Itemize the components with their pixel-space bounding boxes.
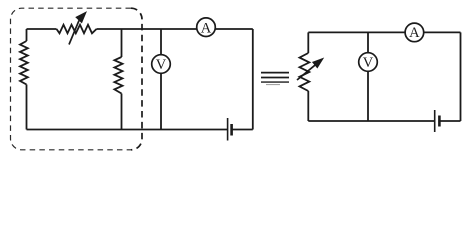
svg-text:V: V: [156, 57, 167, 73]
wire: right circuit bottom wire to battery B2: [308, 120, 434, 122]
dashed enclosure box right edge (bolder): [131, 8, 142, 150]
svg-text:A: A: [201, 21, 212, 37]
equivalence symbol (three bars): [261, 72, 289, 74]
wire: right circuit top wire from ammeter A2 to corner: [424, 31, 461, 33]
wire: voltmeter V1 branch bottom stub: [160, 73, 162, 129]
ammeter A2 circle: [405, 23, 424, 42]
wire: voltmeter V1 branch top stub: [160, 29, 162, 55]
wire: left wire top stub: [26, 29, 28, 41]
rheostat R1 arrowhead: [76, 12, 86, 22]
voltmeter V2 circle: [359, 53, 378, 72]
dashed enclosure box (equivalent network boundary): [11, 8, 132, 150]
battery B2 long plate: [434, 110, 436, 132]
resistor R2 (left vertical) zigzag: [20, 41, 28, 85]
wire: right circuit top wire to ammeter A2: [308, 31, 405, 33]
wire: middle branch bottom stub: [121, 94, 123, 130]
wire: bottom wire from battery B1 to right corner: [232, 129, 253, 131]
svg-text:A: A: [409, 25, 420, 41]
resistor R3 (middle vertical) zigzag: [114, 57, 122, 94]
voltmeter V1 circle: [152, 55, 171, 74]
rheostat R4 zigzag (right circuit, variable resistor): [300, 53, 310, 91]
wire: left wire bottom segment: [26, 85, 28, 130]
wire: right circuit right vertical wire: [460, 32, 462, 121]
wire: voltmeter V2 branch top stub: [367, 32, 369, 52]
wire: bottom wire to battery B1: [27, 129, 228, 131]
wire: right circuit left wire bottom segment: [307, 91, 309, 121]
wire: top wire from rheostat to ammeter A1: [97, 28, 197, 30]
wire: top wire from ammeter A1 to right corner: [215, 28, 253, 30]
rheostat R1 zigzag (top, variable resistor): [57, 25, 97, 34]
wire: middle branch top stub: [121, 29, 123, 57]
wire: right circuit bottom wire from battery B2 to corner: [439, 120, 460, 122]
battery B2 short plate: [438, 116, 441, 127]
wire: right circuit top-left corner down to rheostat R4: [307, 32, 309, 53]
battery B1 short plate: [230, 124, 233, 136]
rheostat R4 arrow shaft: [297, 64, 316, 80]
ammeter A1 circle: [197, 18, 216, 37]
svg-text:V: V: [363, 55, 374, 71]
wire: right vertical wire of left circuit: [252, 29, 254, 130]
battery B1 long plate: [227, 118, 229, 141]
rheostat R4 arrowhead: [313, 59, 323, 68]
wire: top-left segment to rheostat: [27, 28, 57, 30]
rheostat R1 arrow shaft: [69, 21, 79, 45]
wire: voltmeter V2 branch bottom stub: [367, 71, 369, 121]
